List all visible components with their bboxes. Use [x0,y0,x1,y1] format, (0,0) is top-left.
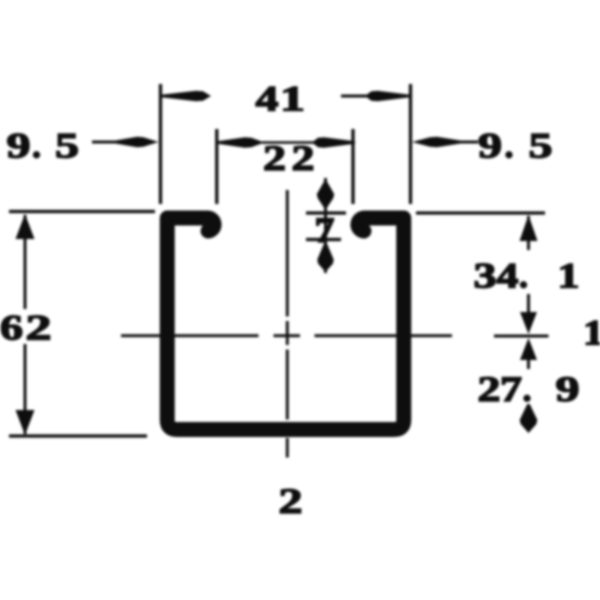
horizontal centerline [121,334,549,337]
dim 62: dimension line [24,215,27,434]
dim 62: bottom extension line [9,434,147,437]
dim 27.9: down arrow [520,404,538,433]
dim 41: right leader [341,95,370,98]
svg-text:2: 2 [279,481,303,521]
dim 34.1: up arrow [520,215,538,241]
svg-text:2: 2 [292,138,315,178]
svg-text:5: 5 [529,126,553,166]
dim 22: left extension line [215,129,218,204]
svg-text:2: 2 [263,138,286,178]
dim 34.1: dimension line pieces [527,216,530,314]
svg-text:1: 1 [583,313,600,353]
svg-text:1: 1 [558,256,580,296]
dim 9.5 left: leader [92,141,118,144]
dim 22: dimension line [262,141,325,144]
dim 22: right arrow [312,137,355,148]
svg-text:4: 4 [497,256,519,296]
dim 7: upper arrow [317,181,334,210]
dim 22: right extension line [351,129,354,204]
svg-text:9: 9 [7,126,31,166]
svg-text:.: . [523,369,532,409]
dim 7: vertical line [324,178,327,273]
dim 9.5 right: arrow [412,137,462,148]
svg-text:2: 2 [478,369,501,409]
dim 7: upper tick [306,211,346,214]
dim 27.9: line below arrow [527,360,530,369]
svg-text:7: 7 [500,369,522,409]
svg-text:4: 4 [256,79,279,119]
svg-text:9: 9 [556,369,580,409]
svg-text:5: 5 [55,126,79,166]
dim 9.5 left: arrow [114,137,159,148]
vertical centerline [286,190,289,458]
dim 62: bottom arrow [16,410,35,435]
dim 22: left arrow [218,137,265,148]
dim 41: right extension line [409,84,412,204]
svg-text:7: 7 [315,210,335,250]
dim 34.1/27.9: top extension line [416,211,545,214]
svg-text:.: . [519,256,528,296]
svg-text:2: 2 [26,308,52,348]
svg-text:1: 1 [280,79,305,119]
dim 9.5 right: leader [459,141,478,144]
dim 62: top extension line [9,210,155,213]
svg-text:.: . [32,126,41,166]
svg-text:.: . [505,126,514,166]
dim 7: lower tick [306,238,341,241]
svg-text:6: 6 [0,308,23,348]
svg-text:3: 3 [474,256,497,296]
dim 7: lower arrow [317,243,333,272]
dim 41: right arrow [365,91,410,102]
dim 41: left arrow [161,91,211,102]
dim 27.9: up arrow [520,338,537,360]
svg-text:9: 9 [478,126,502,166]
dim 34.1: down arrow [520,312,537,334]
strut channel profile [167,218,404,430]
dim 41: left extension line [159,84,162,204]
dim 62: top arrow [16,214,35,239]
